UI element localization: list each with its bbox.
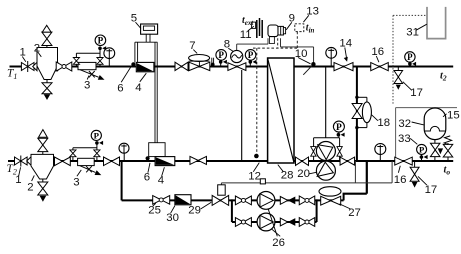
svg-text:P: P xyxy=(248,50,254,60)
svg-text:P: P xyxy=(336,123,342,133)
svg-text:20: 20 xyxy=(297,168,310,180)
svg-text:6: 6 xyxy=(144,172,150,184)
svg-text:31: 31 xyxy=(406,27,419,39)
svg-text:33: 33 xyxy=(398,133,411,145)
svg-text:14: 14 xyxy=(339,38,352,50)
svg-text:17: 17 xyxy=(410,87,423,99)
svg-text:16: 16 xyxy=(394,174,407,186)
svg-text:10: 10 xyxy=(295,48,308,60)
svg-text:P: P xyxy=(419,145,424,155)
svg-text:P: P xyxy=(407,52,413,62)
svg-text:2: 2 xyxy=(27,182,33,194)
svg-text:4: 4 xyxy=(135,82,141,94)
svg-text:12: 12 xyxy=(248,171,261,183)
svg-text:3: 3 xyxy=(73,177,79,189)
svg-text:3: 3 xyxy=(84,80,90,92)
svg-text:P: P xyxy=(98,36,104,46)
svg-text:29: 29 xyxy=(188,205,201,217)
svg-text:17: 17 xyxy=(425,184,438,196)
svg-text:2: 2 xyxy=(34,43,40,55)
svg-text:30: 30 xyxy=(166,212,179,224)
svg-text:15: 15 xyxy=(447,110,460,122)
svg-text:11: 11 xyxy=(240,29,252,41)
svg-text:6: 6 xyxy=(117,83,123,95)
svg-text:18: 18 xyxy=(377,117,390,129)
svg-text:26: 26 xyxy=(272,237,285,249)
svg-text:4: 4 xyxy=(158,175,164,187)
svg-text:32: 32 xyxy=(398,118,411,130)
svg-text:P: P xyxy=(94,131,100,141)
svg-text:16: 16 xyxy=(371,46,384,58)
svg-text:P: P xyxy=(218,50,224,60)
svg-text:25: 25 xyxy=(148,205,161,217)
svg-text:7: 7 xyxy=(189,40,195,52)
